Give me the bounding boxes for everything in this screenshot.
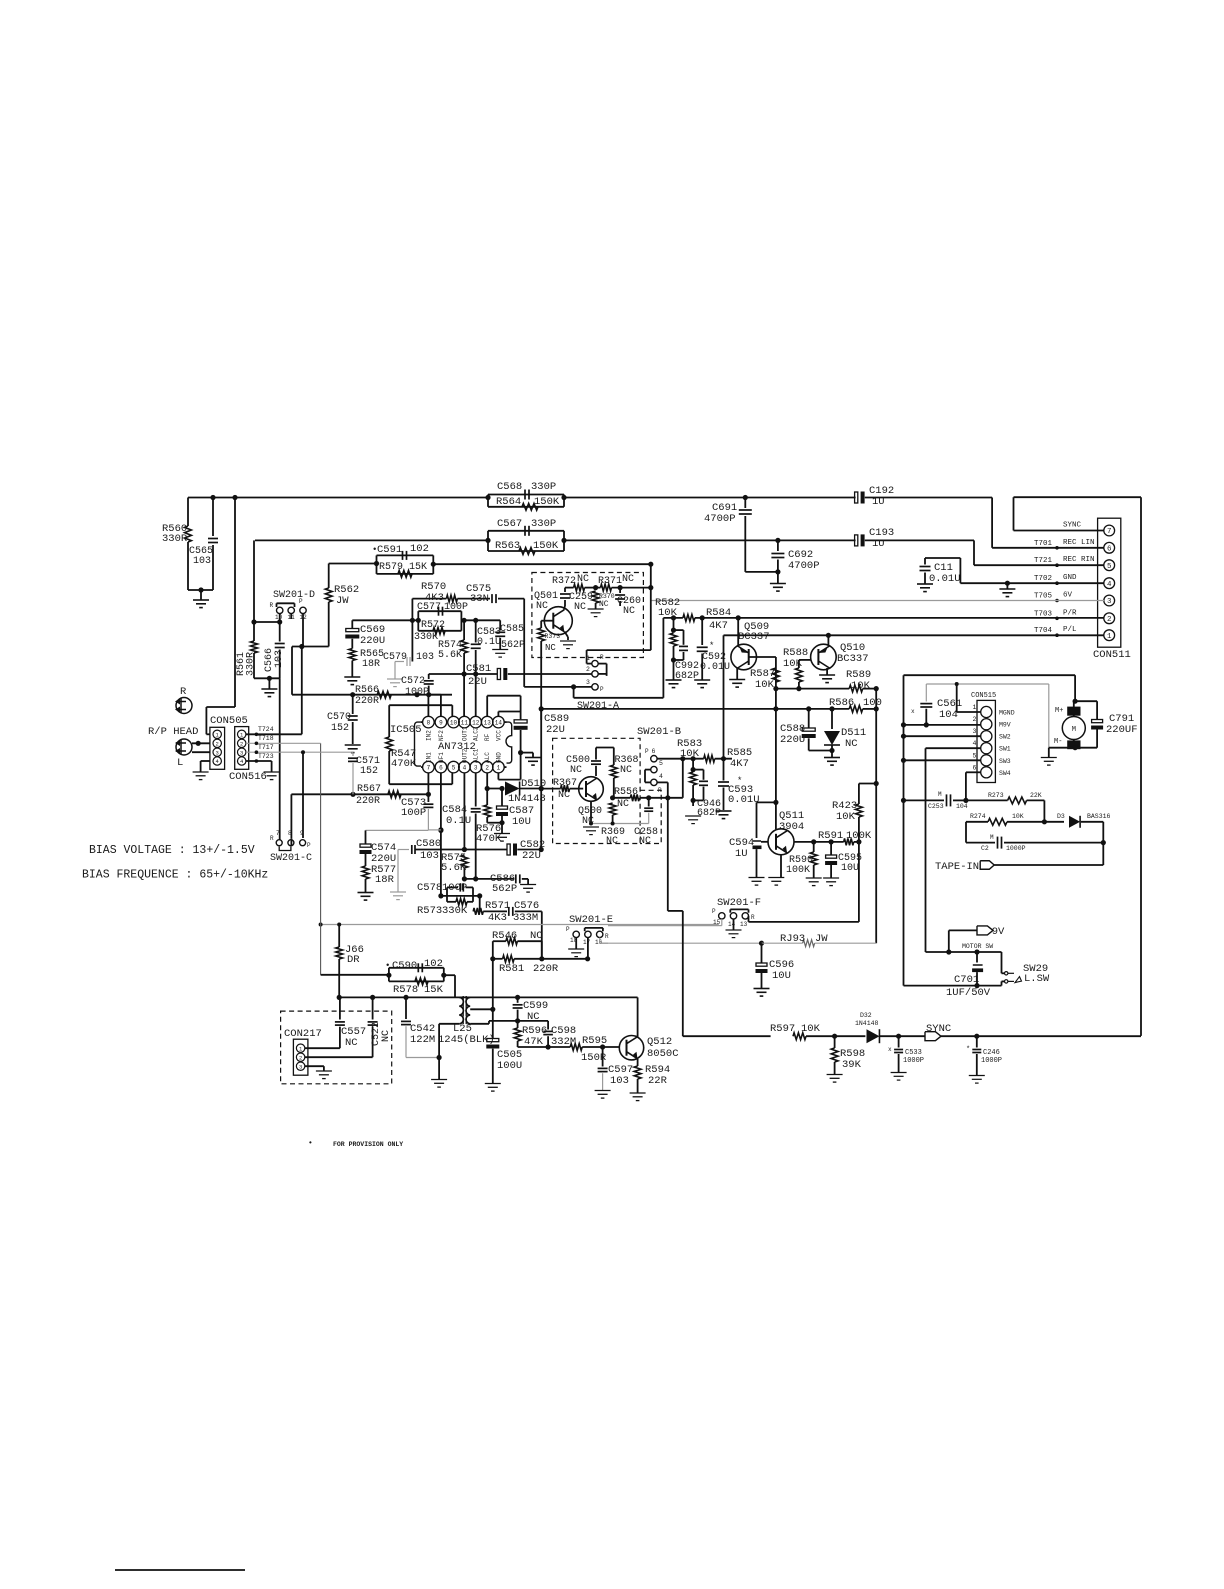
capacitor C246 1000P [976,1036,978,1047]
resistor R587 10K [773,668,780,682]
svg-text:R372: R372 [552,576,576,587]
svg-text:T702: T702 [1034,575,1052,583]
wire Q511 output row [794,841,844,843]
capacitor C593 0.01U [723,758,725,781]
ground under R577 [358,892,374,894]
capacitor C260 NC [619,588,621,593]
svg-text:FOR PROVISION ONLY: FOR PROVISION ONLY [333,1141,403,1148]
svg-text:C576: C576 [514,900,539,912]
svg-text:2: 2 [240,740,243,747]
ground under C593 [716,810,732,812]
wire head L to CON505 pin3 [192,751,210,753]
svg-text:C580: C580 [416,838,441,850]
svg-text:104: 104 [956,803,968,810]
ground under C946 [685,815,701,817]
svg-text:1U: 1U [872,496,885,508]
svg-text:NC: NC [622,574,634,585]
wire secondary bottom row [518,1020,549,1022]
IC505 pin 4 OUT2 [459,761,471,773]
svg-text:5: 5 [1107,563,1112,571]
capacitor C586 562P [515,874,517,883]
svg-text:BC337: BC337 [738,631,770,643]
svg-text:IC505: IC505 [390,724,422,736]
ground near IC [525,757,541,759]
wire R588 top to Q510 base [799,659,811,661]
svg-text:0.01U: 0.01U [728,794,760,806]
capacitor C590 / resistor R578 parallel block [321,974,389,976]
wire R572 block to C569 wire [412,619,418,621]
ground [824,757,840,759]
wire T724 net [246,733,302,735]
wire pin13 RF top lead [486,696,488,717]
wire R579 block output [433,563,651,565]
wire SW201-C pin8 up to R567 row [290,839,292,846]
ground under C592 [694,679,710,681]
wire CON505 pin4 ground [201,760,210,762]
resistor R423 10K [858,817,860,842]
ground on GND row [1006,583,1008,589]
svg-text:C533: C533 [905,1049,922,1057]
svg-text:18R: 18R [375,874,395,886]
wire second rail left [255,539,488,541]
svg-text:C570: C570 [327,712,351,723]
ground [261,688,277,690]
svg-text:x: x [888,1046,892,1053]
svg-text:122M: 122M [410,1034,435,1046]
CON511 pin 2 P/R [1104,613,1115,624]
page footer line [115,1569,245,1571]
wire T717 net gray [246,751,353,753]
svg-text:NC: NC [639,836,651,847]
capacitor C692 [777,540,779,551]
transformer L25 core [462,996,464,1002]
svg-text:M9V: M9V [999,722,1011,729]
wire Q510 emitter ground [826,668,828,675]
svg-text:100P: 100P [401,807,426,819]
wire R583 shunt node [692,759,694,770]
svg-text:100P: 100P [444,602,468,613]
svg-text:100U: 100U [497,1060,522,1072]
resistor R556 NC [630,794,639,801]
capacitor C567 / resistor R563 parallel block [488,530,564,532]
svg-text:R566: R566 [355,685,379,696]
gray bus wire y=924.5 [321,924,719,926]
connector CON217 body [293,1039,308,1075]
svg-text:P: P [600,686,604,693]
svg-text:NC: NC [570,765,582,776]
svg-text:4K7: 4K7 [709,620,728,632]
svg-text:Q512: Q512 [647,1036,672,1048]
ground under R565 [344,676,360,678]
transistor Q511 3904 [768,829,794,855]
svg-text:104: 104 [939,709,958,721]
wire motor M+ node [1073,699,1078,704]
resistor R582 shunt + capacitor C992 682P [673,618,675,630]
ground under C570 [345,744,361,746]
IC505 pin 7 IN1 [423,761,435,773]
svg-text:2: 2 [216,740,219,747]
resistor R372 NC [565,587,574,589]
wire P6 row [657,758,704,760]
wire top rail to C691 [564,497,856,499]
ground under R590 [806,877,822,879]
wire top rail left [188,497,488,499]
resistor R370 NC [592,591,599,603]
svg-text:BAS316: BAS316 [1087,813,1111,820]
ground under C505 [485,1083,501,1085]
svg-text:OUT1: OUT1 [461,726,468,741]
svg-text:150K: 150K [533,540,559,552]
wire SW201-D pin10 to node [279,614,281,622]
svg-text:T704: T704 [1034,627,1053,635]
CON511 pin 7 SYNC [1104,525,1115,536]
svg-text:1: 1 [1107,633,1112,641]
capacitor C946 682P [703,770,705,780]
record head L [176,739,192,755]
svg-text:BIAS VOLTAGE : 13+/-1.5V: BIAS VOLTAGE : 13+/-1.5V [89,844,255,857]
capacitor C599 NC [517,997,519,1002]
svg-text:SW3: SW3 [999,758,1011,765]
wire CON217 pin3 ground [305,1065,324,1067]
svg-text:3: 3 [216,749,219,756]
ground under C597 [595,1090,611,1092]
capacitor C570 152 [352,695,354,714]
svg-text:13: 13 [740,921,748,928]
svg-text:3: 3 [299,1063,302,1070]
svg-text:C567: C567 [497,518,522,530]
capacitor C192 electrolytic [855,492,858,503]
ground under C594 [749,877,765,879]
IC505 pin 2 ALC [481,761,493,773]
svg-text:3904: 3904 [779,821,804,833]
resistor R591 100K [844,839,854,846]
svg-text:NC: NC [582,816,594,827]
wire pin5 lead [451,773,453,784]
svg-text:R579: R579 [379,562,403,573]
svg-text:R: R [658,787,662,794]
svg-text:L: L [177,757,183,769]
svg-text:R567: R567 [357,784,381,795]
svg-text:C581: C581 [466,663,491,675]
ground under C533 [891,1072,907,1074]
wire CON515 pin4 SW1 [926,747,981,749]
svg-text:D32: D32 [860,1012,872,1019]
svg-text:MOTOR SW: MOTOR SW [962,943,993,950]
ground [193,599,209,601]
svg-text:C585: C585 [500,624,524,635]
wire collector feedback vertical [775,689,777,803]
svg-text:1: 1 [973,704,977,711]
wire head R feed vertical [234,498,236,708]
svg-text:2: 2 [299,1054,302,1061]
svg-text:R573: R573 [417,905,442,917]
wire secondary tap lead [470,1008,493,1010]
svg-text:R563: R563 [495,540,520,552]
wire node bar [254,621,280,623]
wire R571 row [479,896,481,912]
svg-text:15K: 15K [424,984,444,996]
wire R566 rail [292,694,452,696]
wire Q510 collector to P/L line [827,635,829,646]
svg-text:16: 16 [595,939,603,946]
bracket SW201-B pins 5-4 [645,769,651,771]
svg-text:C2: C2 [981,845,989,852]
svg-text:R370: R370 [599,593,615,600]
wire SW201-D pin11 stub [290,614,292,619]
svg-text:SW201-B: SW201-B [637,726,681,738]
wire MOTOR SW row [926,951,1002,953]
ground under Q501 emitter [565,632,569,638]
svg-text:T723: T723 [258,753,274,760]
wire pin8 IN2 top lead [427,695,429,717]
wire C576 to R546 node [541,911,543,958]
svg-text:4700P: 4700P [788,560,820,572]
capacitor C259 NC [564,588,566,592]
ground under M- row [1048,748,1050,757]
svg-text:NC: NC [617,799,629,810]
resistor J66 DR [338,925,340,948]
resistor R590 100K [813,842,815,852]
ground under R370 [588,608,604,610]
svg-text:22R: 22R [648,1075,668,1087]
resistor R367 NC [540,788,561,790]
wire pin4 OUT2 column [463,773,465,850]
svg-text:C568: C568 [497,481,522,493]
wire pin4 to R556 row [657,781,668,783]
CON515 pin 3 SW2 [981,731,992,742]
svg-text:4: 4 [463,764,467,771]
connector CON516 [235,727,249,770]
svg-text:4: 4 [1107,581,1112,589]
resistor RJ93 JW [762,942,803,944]
svg-text:x: x [911,708,915,715]
resistor R547 470K [388,705,390,737]
svg-text:4K7: 4K7 [730,758,749,770]
gray wire to SW201-F pin15 [608,925,718,927]
svg-text:R564: R564 [496,496,521,508]
svg-text:6: 6 [652,748,656,755]
svg-text:4: 4 [973,740,977,747]
wire pin6 NF1 column [440,773,442,896]
wire SW201-F P6 net to R597 row [667,798,669,911]
svg-text:3: 3 [1107,598,1112,606]
CON515 pin 6 SW4 [981,767,992,778]
wire R587/R588 bottom rail [776,688,849,690]
svg-text:150K: 150K [534,496,560,508]
svg-text:18R: 18R [362,659,380,670]
svg-text:1: 1 [586,655,590,662]
svg-text:NC: NC [558,790,570,801]
svg-text:R: R [180,686,187,698]
svg-text:CON505: CON505 [210,715,248,727]
svg-text:22U: 22U [546,724,565,736]
svg-text:M+: M+ [1055,707,1063,715]
CON511 pin 4 GND [1104,578,1115,589]
svg-text:REC RIN: REC RIN [1063,556,1095,564]
wire pin7 IN1 / C573 [427,773,429,794]
svg-text:NC: NC [623,606,635,617]
capacitor C258 NC [648,798,650,807]
wire P/R line [663,617,683,619]
svg-text:103: 103 [416,652,434,663]
svg-text:330K: 330K [414,632,438,643]
ground under C585 [492,649,508,651]
wire SW201-E pin17 to R581 row [587,938,589,959]
dashed box SW201-B [553,738,641,843]
svg-text:GND: GND [495,752,502,763]
svg-text:152: 152 [360,766,378,777]
svg-text:OUT2: OUT2 [461,748,468,763]
svg-text:5.6K: 5.6K [441,862,467,874]
svg-text:R274: R274 [970,813,986,820]
svg-text:C701: C701 [954,974,979,986]
capacitor C572 100P [428,674,430,679]
svg-text:3: 3 [973,728,977,735]
svg-text:NC: NC [845,738,858,750]
CON511 pin 5 REC RIN [1104,560,1115,571]
svg-text:M: M [1072,726,1076,734]
capacitor C791 220UF electrolytic [1092,720,1103,723]
resistor R565 18R [349,649,356,661]
svg-text:IN2: IN2 [425,730,432,741]
resistor R575 5.6K [461,855,468,868]
wire head R to CON505 pin1 [205,707,207,734]
svg-text:R: R [270,602,274,609]
svg-text:NC: NC [536,601,548,612]
svg-text:R373: R373 [545,633,561,640]
svg-text:7: 7 [276,830,280,837]
ground under C580 left lead [397,850,399,892]
resistor R571 4K3 [473,908,483,915]
wire motor M- row [1049,747,1097,749]
svg-text:C572: C572 [401,676,425,687]
svg-text:470K: 470K [391,758,417,770]
wire Q509 emitter to ground [736,668,738,679]
svg-text:R/P HEAD: R/P HEAD [148,726,198,738]
resistor R576 470K [486,789,488,806]
svg-text:330P: 330P [531,518,556,530]
ground under C992 [666,679,682,681]
capacitor C592 0.01U [701,618,703,645]
resistor R595 150R [570,1044,582,1051]
wire CON515 pin6 SW4 [966,771,981,773]
capacitor C253 104 [904,799,945,801]
capacitor C533 1000P [898,1036,900,1047]
capacitor C578 / resistor R573 parallel block [441,895,480,897]
capacitor C587 10U electrolytic [501,789,503,806]
capacitor C701 1UF/50V electrolytic [976,952,978,963]
svg-text:13: 13 [484,719,492,726]
wire C691/C692 ground node [745,571,778,573]
wire C573 bottom row [366,829,429,831]
svg-text:P: P [566,926,570,933]
svg-text:9: 9 [300,830,304,837]
svg-text:R: R [600,654,604,661]
capacitor C596 10U electrolytic [761,943,763,962]
diode D32 1N4148 [867,1029,880,1043]
svg-text:10K: 10K [1012,813,1024,820]
wire CON515 pin2 M9V [904,724,981,726]
ground under R598 [827,1074,843,1076]
svg-text:GND: GND [1063,574,1077,582]
svg-text:10K: 10K [680,748,700,760]
capacitor C597 103 [602,1047,604,1067]
svg-text:R: R [270,835,274,842]
svg-text:562P: 562P [492,883,517,895]
svg-text:15: 15 [713,919,721,926]
svg-text:ALC2: ALC2 [473,726,480,741]
record head R [176,698,192,714]
motor M [1068,707,1080,715]
wire R591 node to SW201-F [858,842,860,922]
svg-text:220U: 220U [780,734,805,746]
wire Q500 emitter bottom [590,801,592,823]
svg-text:470K: 470K [476,833,502,845]
resistor R373 NC [541,620,553,622]
ground under C579 left lead [394,662,396,679]
svg-text:SYNC: SYNC [1063,522,1082,530]
svg-text:10U: 10U [772,970,791,982]
capacitor C500 NC [595,748,597,760]
transistor Q509 BC337 [737,618,739,646]
svg-text:SW4: SW4 [999,770,1011,777]
IC505 pin 5 [448,761,460,773]
wire D510 row [487,788,504,790]
svg-text:SW201-E: SW201-E [569,914,613,926]
wire Q509 base to R587/R588 [749,656,776,658]
svg-text:5.6K: 5.6K [438,650,462,661]
wire motor block top edge [904,674,1076,676]
svg-text:12: 12 [472,719,480,726]
svg-text:2: 2 [973,716,977,723]
svg-text:1: 1 [497,764,501,771]
gray wire RJ93 row [600,942,762,944]
svg-text:SW201-F: SW201-F [717,897,761,909]
IC505 pin 13 RF [481,716,493,728]
svg-text:2: 2 [586,666,590,673]
svg-text:0.01U: 0.01U [929,573,961,585]
svg-text:AN7312: AN7312 [438,741,476,753]
svg-text:NC: NC [530,930,543,942]
svg-text:M: M [990,834,994,841]
wire to CON511 pin6 [991,498,993,548]
svg-text:JW: JW [336,595,349,607]
svg-text:0.1U: 0.1U [477,637,501,648]
net flag 9V [977,926,993,935]
svg-text:3: 3 [474,764,478,771]
wire R596/C598 bottom row [518,1046,549,1048]
wire SW201-D pin12 down to T724 [302,614,304,647]
resistor R566 220R [377,691,391,698]
svg-text:MGND: MGND [999,710,1015,717]
svg-text:6: 6 [973,764,977,771]
svg-text:220R: 220R [355,696,379,707]
wire R581 to winding tap [492,959,494,1010]
resistor R546 NC [492,941,494,959]
svg-text:T724: T724 [258,726,274,733]
wire C566 node down to SW201-C pin7 [279,678,281,839]
svg-text:NC: NC [345,1037,358,1049]
wire C586 row [464,878,513,880]
svg-text:330R: 330R [246,652,257,676]
svg-text:0.1U: 0.1U [446,815,471,827]
svg-text:RF: RF [484,733,491,741]
wire R581 row [493,958,503,960]
svg-text:NF1: NF1 [438,752,445,763]
svg-text:4700P: 4700P [704,513,736,525]
svg-text:R581: R581 [499,963,524,975]
wire to CON511 pin5 [973,540,975,565]
